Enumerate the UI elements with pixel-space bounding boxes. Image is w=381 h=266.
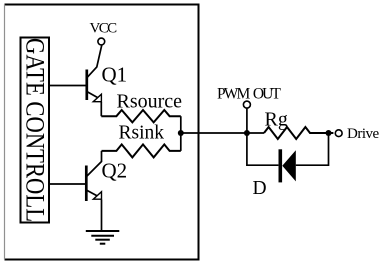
svg-text:Rsource: Rsource bbox=[117, 91, 183, 113]
svg-text:Rsink: Rsink bbox=[119, 123, 165, 144]
Q1 emitter arrow bbox=[93, 94, 101, 102]
svg-text:Q2: Q2 bbox=[102, 158, 128, 182]
Q2 emitter arrow bbox=[93, 192, 101, 200]
wire gate control to Q1 base bbox=[49, 85, 86, 87]
svg-text:D: D bbox=[253, 178, 267, 199]
wire Q1 emitter to Rsource bbox=[100, 102, 102, 116]
resistor Rsource bbox=[101, 110, 181, 122]
resistor Rg bbox=[264, 127, 333, 139]
VCC terminal circle bbox=[98, 38, 105, 45]
outer schematic frame bbox=[5, 5, 199, 260]
transistor Q1 base bar bbox=[85, 70, 88, 101]
wire junction to PWM OUT and Rg bbox=[181, 132, 264, 134]
Q2 emitter line bbox=[86, 190, 97, 196]
node junction resistors bbox=[178, 130, 184, 136]
resistor Rsink bbox=[102, 144, 181, 157]
ground bbox=[86, 231, 120, 244]
svg-text:PWM OUT: PWM OUT bbox=[217, 86, 281, 103]
transistor Q2 base bar bbox=[85, 166, 88, 202]
Drive terminal circle bbox=[335, 130, 342, 137]
wire diode branch right bbox=[296, 133, 329, 165]
diode D cathode bar bbox=[278, 149, 282, 182]
wire Rsink to Q2 collector bbox=[87, 151, 102, 176]
svg-text:GATE CONTROLL: GATE CONTROLL bbox=[20, 38, 49, 222]
wire gate control to Q2 base bbox=[49, 183, 85, 185]
gate control block U-GATE bbox=[21, 38, 50, 223]
outer frame left edge (faint) bbox=[4, 5, 6, 260]
wire diode branch left bbox=[247, 133, 279, 165]
wire Q2 emitter to ground bbox=[101, 200, 103, 231]
svg-text:VCC: VCC bbox=[89, 21, 117, 37]
Q1 emitter line bbox=[87, 92, 98, 98]
wire VCC to Q1 collector bbox=[87, 45, 102, 78]
wire PWM OUT to node bbox=[246, 108, 248, 133]
node PWM junction bbox=[244, 130, 250, 136]
diode D triangle bbox=[282, 150, 296, 181]
wire Rsource/Rsink junction vertical bbox=[180, 116, 182, 151]
node Rg output bbox=[326, 130, 332, 136]
svg-text:Q1: Q1 bbox=[102, 62, 128, 86]
svg-text:Drive: Drive bbox=[347, 126, 379, 142]
PWM OUT terminal circle bbox=[243, 101, 250, 108]
